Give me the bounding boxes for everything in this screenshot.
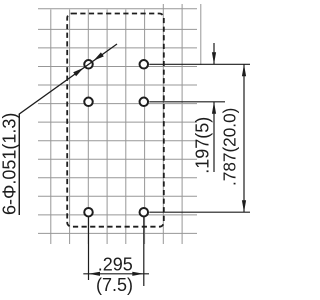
svg-text:(7.5): (7.5): [96, 275, 133, 295]
hole H2 (top-right): [140, 60, 149, 69]
dimension .295 arrow right: [132, 272, 144, 276]
svg-text:.787(20.0): .787(20.0): [220, 108, 240, 186]
hole H5 (bottom-left): [84, 208, 93, 217]
extension line row2: [149, 101, 225, 103]
svg-text:.197(5): .197(5): [193, 117, 213, 174]
dimension .295 line: [83, 273, 149, 275]
hole H3 (mid-left): [84, 98, 93, 107]
leader arrowhead lower: [73, 68, 83, 76]
hole H4 (mid-right): [140, 98, 149, 107]
grid (decorative): [38, 4, 201, 244]
hole H6 (bottom-right): [140, 208, 149, 217]
svg-text:6-Φ.051(1.3): 6-Φ.051(1.3): [0, 113, 19, 215]
dimension .295 arrow left: [89, 272, 101, 276]
dashed outline (relay body): [67, 14, 164, 227]
extension line below H6: [143, 217, 145, 286]
extension line row3: [149, 211, 250, 213]
leader arrowhead upper: [93, 52, 103, 60]
dimension .787(20.0) arrow down: [242, 200, 246, 212]
dimension .197(5) arrow up: [212, 102, 216, 114]
hole callout underline: [18, 114, 20, 215]
dimension .197(5) arrow down: [212, 52, 216, 64]
dimension .197(5) lines: [213, 43, 215, 172]
hole H1 (top-left): [84, 60, 93, 69]
svg-text:.295: .295: [98, 255, 133, 275]
leader line for hole callout: [19, 44, 117, 215]
dimension .787(20.0) arrow up: [242, 64, 246, 76]
extension line below H5: [88, 217, 90, 280]
extension line row1: [149, 63, 250, 65]
dimension .787(20.0) line: [243, 64, 245, 212]
